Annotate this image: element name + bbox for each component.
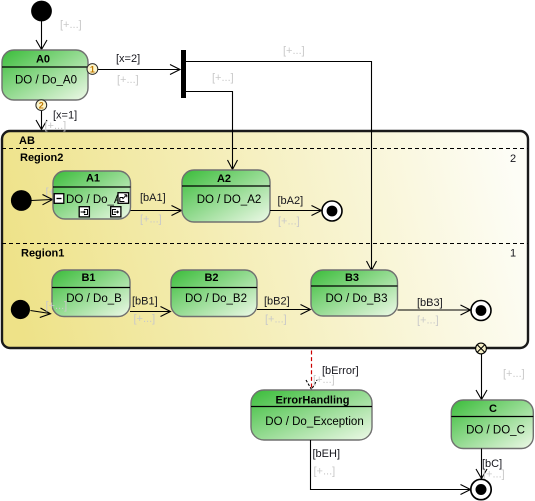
svg-text:DO / Do_Exception: DO / Do_Exception: [265, 416, 363, 428]
svg-text:[+...]: [+...]: [46, 300, 68, 312]
port circle 2: [36, 100, 47, 111]
svg-text:B1: B1: [81, 272, 95, 284]
svg-text:Region2: Region2: [20, 152, 63, 164]
svg-text:AB: AB: [19, 135, 35, 147]
transition initial to A0: [36, 21, 47, 50]
svg-text:[bA1]: [bA1]: [140, 192, 166, 204]
svg-text:A2: A2: [217, 173, 231, 185]
A1 entry point icon: [79, 207, 89, 217]
state ErrorHandling: [251, 390, 372, 440]
svg-text:C: C: [489, 403, 497, 415]
state A1: [53, 171, 131, 219]
composite state AB: [2, 131, 528, 348]
svg-text:[bEH]: [bEH]: [313, 448, 341, 460]
svg-text:[+...]: [+...]: [283, 45, 305, 57]
svg-text:DO / Do_B2: DO / Do_B2: [185, 293, 247, 305]
svg-text:[+...]: [+...]: [212, 72, 234, 84]
svg-text:[+...]: [+...]: [60, 19, 82, 31]
transition A0 to fork [x=2]: [98, 65, 180, 75]
svg-text:A0: A0: [36, 54, 50, 66]
final state region2: [322, 201, 342, 221]
svg-text:[+...]: [+...]: [45, 120, 67, 132]
A1 link icon: [118, 193, 129, 204]
final state region1: [471, 301, 491, 321]
final state bottom: [471, 479, 491, 499]
svg-text:DO / DO_A2: DO / DO_A2: [197, 194, 262, 206]
svg-text:A1: A1: [86, 173, 100, 185]
transition B2 to B3 [bB2]: [257, 305, 311, 315]
fork bar: [181, 50, 186, 98]
state B1: [52, 270, 130, 317]
svg-text:DO / Do_A0: DO / Do_A0: [15, 75, 77, 87]
svg-text:B2: B2: [204, 272, 218, 284]
svg-text:[bB3]: [bB3]: [417, 297, 443, 309]
svg-text:DO / Do_B: DO / Do_B: [66, 293, 122, 305]
A1 collapse icon: [54, 194, 64, 204]
svg-text:[x=2]: [x=2]: [116, 53, 140, 65]
svg-text:[+...]: [+...]: [134, 313, 156, 325]
transition A1 to A2 [bA1]: [131, 206, 182, 216]
state A0: [2, 50, 88, 100]
transition exit point to C: [476, 354, 487, 400]
A1 exit point icon: [111, 207, 121, 217]
svg-text:[bB2]: [bB2]: [264, 296, 290, 308]
svg-text:[+...]: [+...]: [314, 466, 336, 478]
svg-text:[+...]: [+...]: [313, 374, 335, 386]
svg-text:[bA2]: [bA2]: [278, 195, 304, 207]
transition AB to ErrorHandling [bError] (dashed red): [306, 351, 317, 390]
svg-text:DO / Do_B3: DO / Do_B3: [326, 293, 388, 305]
state B3: [311, 270, 398, 316]
exit point on AB border: [476, 343, 487, 354]
svg-text:[bB1]: [bB1]: [132, 296, 158, 308]
state A2: [182, 170, 270, 222]
svg-text:DO / Do_A: DO / Do_A: [66, 194, 122, 206]
svg-text:Region1: Region1: [21, 248, 64, 260]
svg-text:[+...]: [+...]: [278, 216, 300, 228]
svg-text:[+...]: [+...]: [117, 74, 139, 86]
port circle 1: [87, 64, 98, 75]
initial pseudostate (top): [31, 1, 52, 22]
svg-text:1: 1: [510, 248, 516, 260]
transition B1 to B2 [bB1]: [130, 307, 171, 317]
svg-text:1: 1: [90, 65, 95, 75]
transition A2 to final [bA2]: [270, 206, 322, 216]
svg-text:B3: B3: [345, 272, 359, 284]
initial pseudostate region2: [11, 190, 32, 211]
svg-text:[+...]: [+...]: [503, 368, 525, 380]
transition ErrorHandling to final [bEH]: [311, 440, 471, 495]
AB title separator: [2, 148, 528, 150]
region separator: [2, 243, 528, 245]
transition initial to A1: [31, 195, 52, 205]
svg-text:[+...]: [+...]: [265, 314, 287, 326]
transition fork to B3: [186, 62, 377, 271]
svg-text:2: 2: [510, 153, 516, 165]
initial pseudostate region1: [11, 300, 30, 319]
transition C to final [bC]: [476, 449, 487, 479]
svg-text:[+...]: [+...]: [140, 214, 162, 226]
svg-text:2: 2: [39, 101, 44, 111]
svg-text:[+...]: [+...]: [417, 315, 439, 327]
svg-text:DO / DO_C: DO / DO_C: [466, 425, 525, 437]
state B2: [171, 270, 257, 317]
transition A0 to AB [x=1]: [36, 111, 47, 130]
transition initial to B1: [30, 308, 50, 318]
transition B3 to final [bB3]: [398, 305, 471, 315]
svg-text:[+...]: [+...]: [483, 469, 505, 481]
state C: [451, 400, 533, 449]
transition fork to A2: [186, 92, 238, 170]
svg-text:ErrorHandling: ErrorHandling: [276, 395, 350, 407]
